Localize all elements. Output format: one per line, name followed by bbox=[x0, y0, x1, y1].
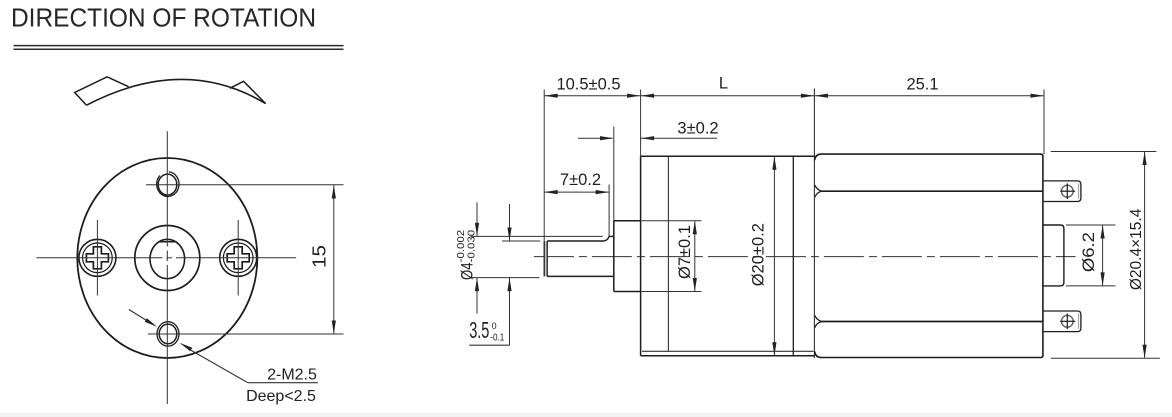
svg-text:Deep<2.5: Deep<2.5 bbox=[246, 388, 316, 405]
shaft flat edge line bbox=[547, 240, 604, 242]
leader arrow into bottom hole bbox=[129, 310, 149, 322]
front view: bottom mounting hole M2.5 inner circle bbox=[159, 324, 177, 344]
front view: right screw outer circle bbox=[220, 239, 257, 276]
front view: right screw inner circle bbox=[223, 243, 253, 273]
side view: horizontal centerline bbox=[534, 256, 1076, 258]
bottom terminal tab bbox=[1043, 311, 1081, 332]
gearbox internal vertical line bbox=[667, 157, 669, 351]
svg-text:10.5±0.5: 10.5±0.5 bbox=[556, 75, 620, 93]
dimension 3±0.2: arrows and lines bbox=[578, 137, 613, 139]
front view: vertical centerline bbox=[166, 131, 168, 246]
rotation direction arc bbox=[87, 79, 266, 105]
dimension 15: dimension line with arrows bbox=[333, 185, 335, 334]
front view: center boss circle bbox=[135, 226, 200, 291]
svg-text:Ø7±0.1: Ø7±0.1 bbox=[676, 225, 694, 279]
dimension 3.5: flat extension line bbox=[502, 240, 540, 242]
svg-text:7±0.2: 7±0.2 bbox=[560, 171, 601, 189]
bearing boss front face bbox=[613, 221, 615, 292]
bearing boss top edge bbox=[614, 220, 641, 222]
dimension Ø4: bottom extension line bbox=[471, 277, 540, 279]
svg-text:Ø6.2: Ø6.2 bbox=[1080, 232, 1098, 272]
front view: top mounting hole M2.5 inner circle bbox=[158, 174, 177, 195]
dimension Ø4: arrow lines bbox=[476, 202, 478, 236]
dimension 3.5: arrow lines bbox=[509, 204, 511, 241]
gearbox bottom edge bbox=[641, 355, 815, 357]
dimension Ø7±0.1: dimension line bbox=[694, 221, 696, 291]
front view: left screw outer circle bbox=[79, 239, 116, 276]
dimension Ø6.2: extension lines bbox=[1066, 224, 1116, 226]
front view: horizontal centerline bbox=[36, 257, 162, 259]
dimension 3.5: underline shelf bbox=[469, 344, 509, 346]
svg-text:15: 15 bbox=[310, 245, 330, 268]
rear bearing boss bbox=[1043, 225, 1064, 286]
svg-text:2-M2.5: 2-M2.5 bbox=[267, 366, 317, 383]
dimension Ø20±0.2: dimension line bbox=[773, 157, 775, 356]
motor body outline bbox=[815, 154, 1043, 357]
front view: top mounting hole thread arc bbox=[157, 172, 179, 197]
front view: left screw centerline bbox=[96, 220, 98, 296]
svg-text:Ø20.4×15.4: Ø20.4×15.4 bbox=[1128, 208, 1145, 290]
extension line at gearbox face top bbox=[640, 90, 642, 157]
shaft flat end fillet bbox=[604, 236, 609, 241]
dimension Ø6.2: dimension line bbox=[1102, 225, 1104, 285]
bottom terminal symbol circle bbox=[1061, 315, 1073, 327]
top terminal symbol cross bbox=[1060, 190, 1075, 192]
motor can bottom flat line bbox=[821, 321, 1043, 323]
front view: left screw inner circle bbox=[83, 243, 113, 273]
gearbox left face bbox=[640, 156, 642, 356]
svg-text:3±0.2: 3±0.2 bbox=[677, 119, 718, 137]
leader shelf bbox=[248, 382, 318, 384]
rotation arrowhead left (open quadrilateral) bbox=[75, 77, 129, 105]
svg-text:L: L bbox=[719, 74, 728, 92]
dimension Ø20.4x15.4: dimension line bbox=[1144, 152, 1146, 358]
title double underline bbox=[14, 45, 344, 47]
dimension Ø4: top extension line bbox=[471, 235, 603, 237]
dimension Ø7±0.1: extension lines bbox=[642, 220, 702, 222]
motor can bottom flat cusp bbox=[815, 315, 822, 327]
gearbox/motor boundary line bbox=[813, 88, 815, 358]
top terminal tab bbox=[1043, 181, 1081, 202]
front view: motor face outline (ellipse) bbox=[77, 158, 257, 358]
dimension Ø20.4x15.4: extension lines bbox=[1051, 151, 1157, 153]
rotation arrowhead right (open triangle) bbox=[230, 81, 266, 103]
front view: shaft circle with flat (D-shape) bbox=[150, 239, 185, 278]
bearing boss bottom edge bbox=[614, 291, 641, 293]
svg-text:3.5: 3.5 bbox=[469, 317, 489, 343]
dimension 7±0.2: dimension line bbox=[544, 191, 609, 193]
dimension text Ø4 -0.002/-0.030 (rotated) bbox=[456, 229, 478, 280]
front view: shaft flat chord line bbox=[158, 241, 176, 243]
svg-text:Ø4: Ø4 bbox=[457, 263, 476, 281]
svg-text:Ø20±0.2: Ø20±0.2 bbox=[750, 223, 768, 286]
motor can top flat line bbox=[821, 190, 1043, 192]
front view: right screw centerline bbox=[237, 220, 239, 296]
svg-text:-0.002: -0.002 bbox=[456, 229, 467, 262]
shaft tip face (shaded) bbox=[544, 241, 547, 276]
gearbox inner bottom line bbox=[642, 350, 814, 352]
svg-text:25.1: 25.1 bbox=[906, 75, 938, 93]
motor can top flat cusp bbox=[815, 185, 822, 197]
extension line at motor right end bbox=[1043, 90, 1045, 155]
bottom gray band bbox=[0, 413, 1172, 417]
dimension 15: bottom extension line bbox=[148, 333, 344, 335]
dimension 3±0.2: extension line above boss face bbox=[613, 127, 615, 221]
top terminal inner shadow line bbox=[1078, 184, 1080, 199]
shaft top shoulder segment bbox=[609, 235, 614, 237]
front view: left screw phillips cross bbox=[86, 247, 108, 269]
extension line at shaft tip bbox=[543, 90, 545, 242]
svg-text:0: 0 bbox=[492, 321, 497, 332]
front view: right screw phillips cross bbox=[227, 247, 249, 269]
shaft bottom edge bbox=[547, 275, 614, 277]
front view: bottom mounting hole thread circle bbox=[157, 322, 179, 346]
leader line 2-M2.5 with arrow bbox=[191, 350, 248, 383]
gearbox top edge bbox=[641, 155, 815, 157]
dimension line 10.5 / L / 25.1 bbox=[544, 95, 1044, 97]
gearbox rim line bbox=[792, 157, 794, 355]
top terminal symbol circle bbox=[1061, 185, 1073, 197]
dimension 7±0.2: extension line at flat end bbox=[608, 185, 610, 237]
bottom terminal symbol cross bbox=[1060, 320, 1075, 322]
svg-text:DIRECTION OF ROTATION: DIRECTION OF ROTATION bbox=[11, 5, 316, 33]
dimension 15: top extension line bbox=[146, 184, 344, 186]
svg-text:-0.1: -0.1 bbox=[490, 332, 504, 343]
bottom terminal inner shadow line bbox=[1078, 314, 1080, 329]
svg-text:-0.030: -0.030 bbox=[467, 229, 478, 262]
